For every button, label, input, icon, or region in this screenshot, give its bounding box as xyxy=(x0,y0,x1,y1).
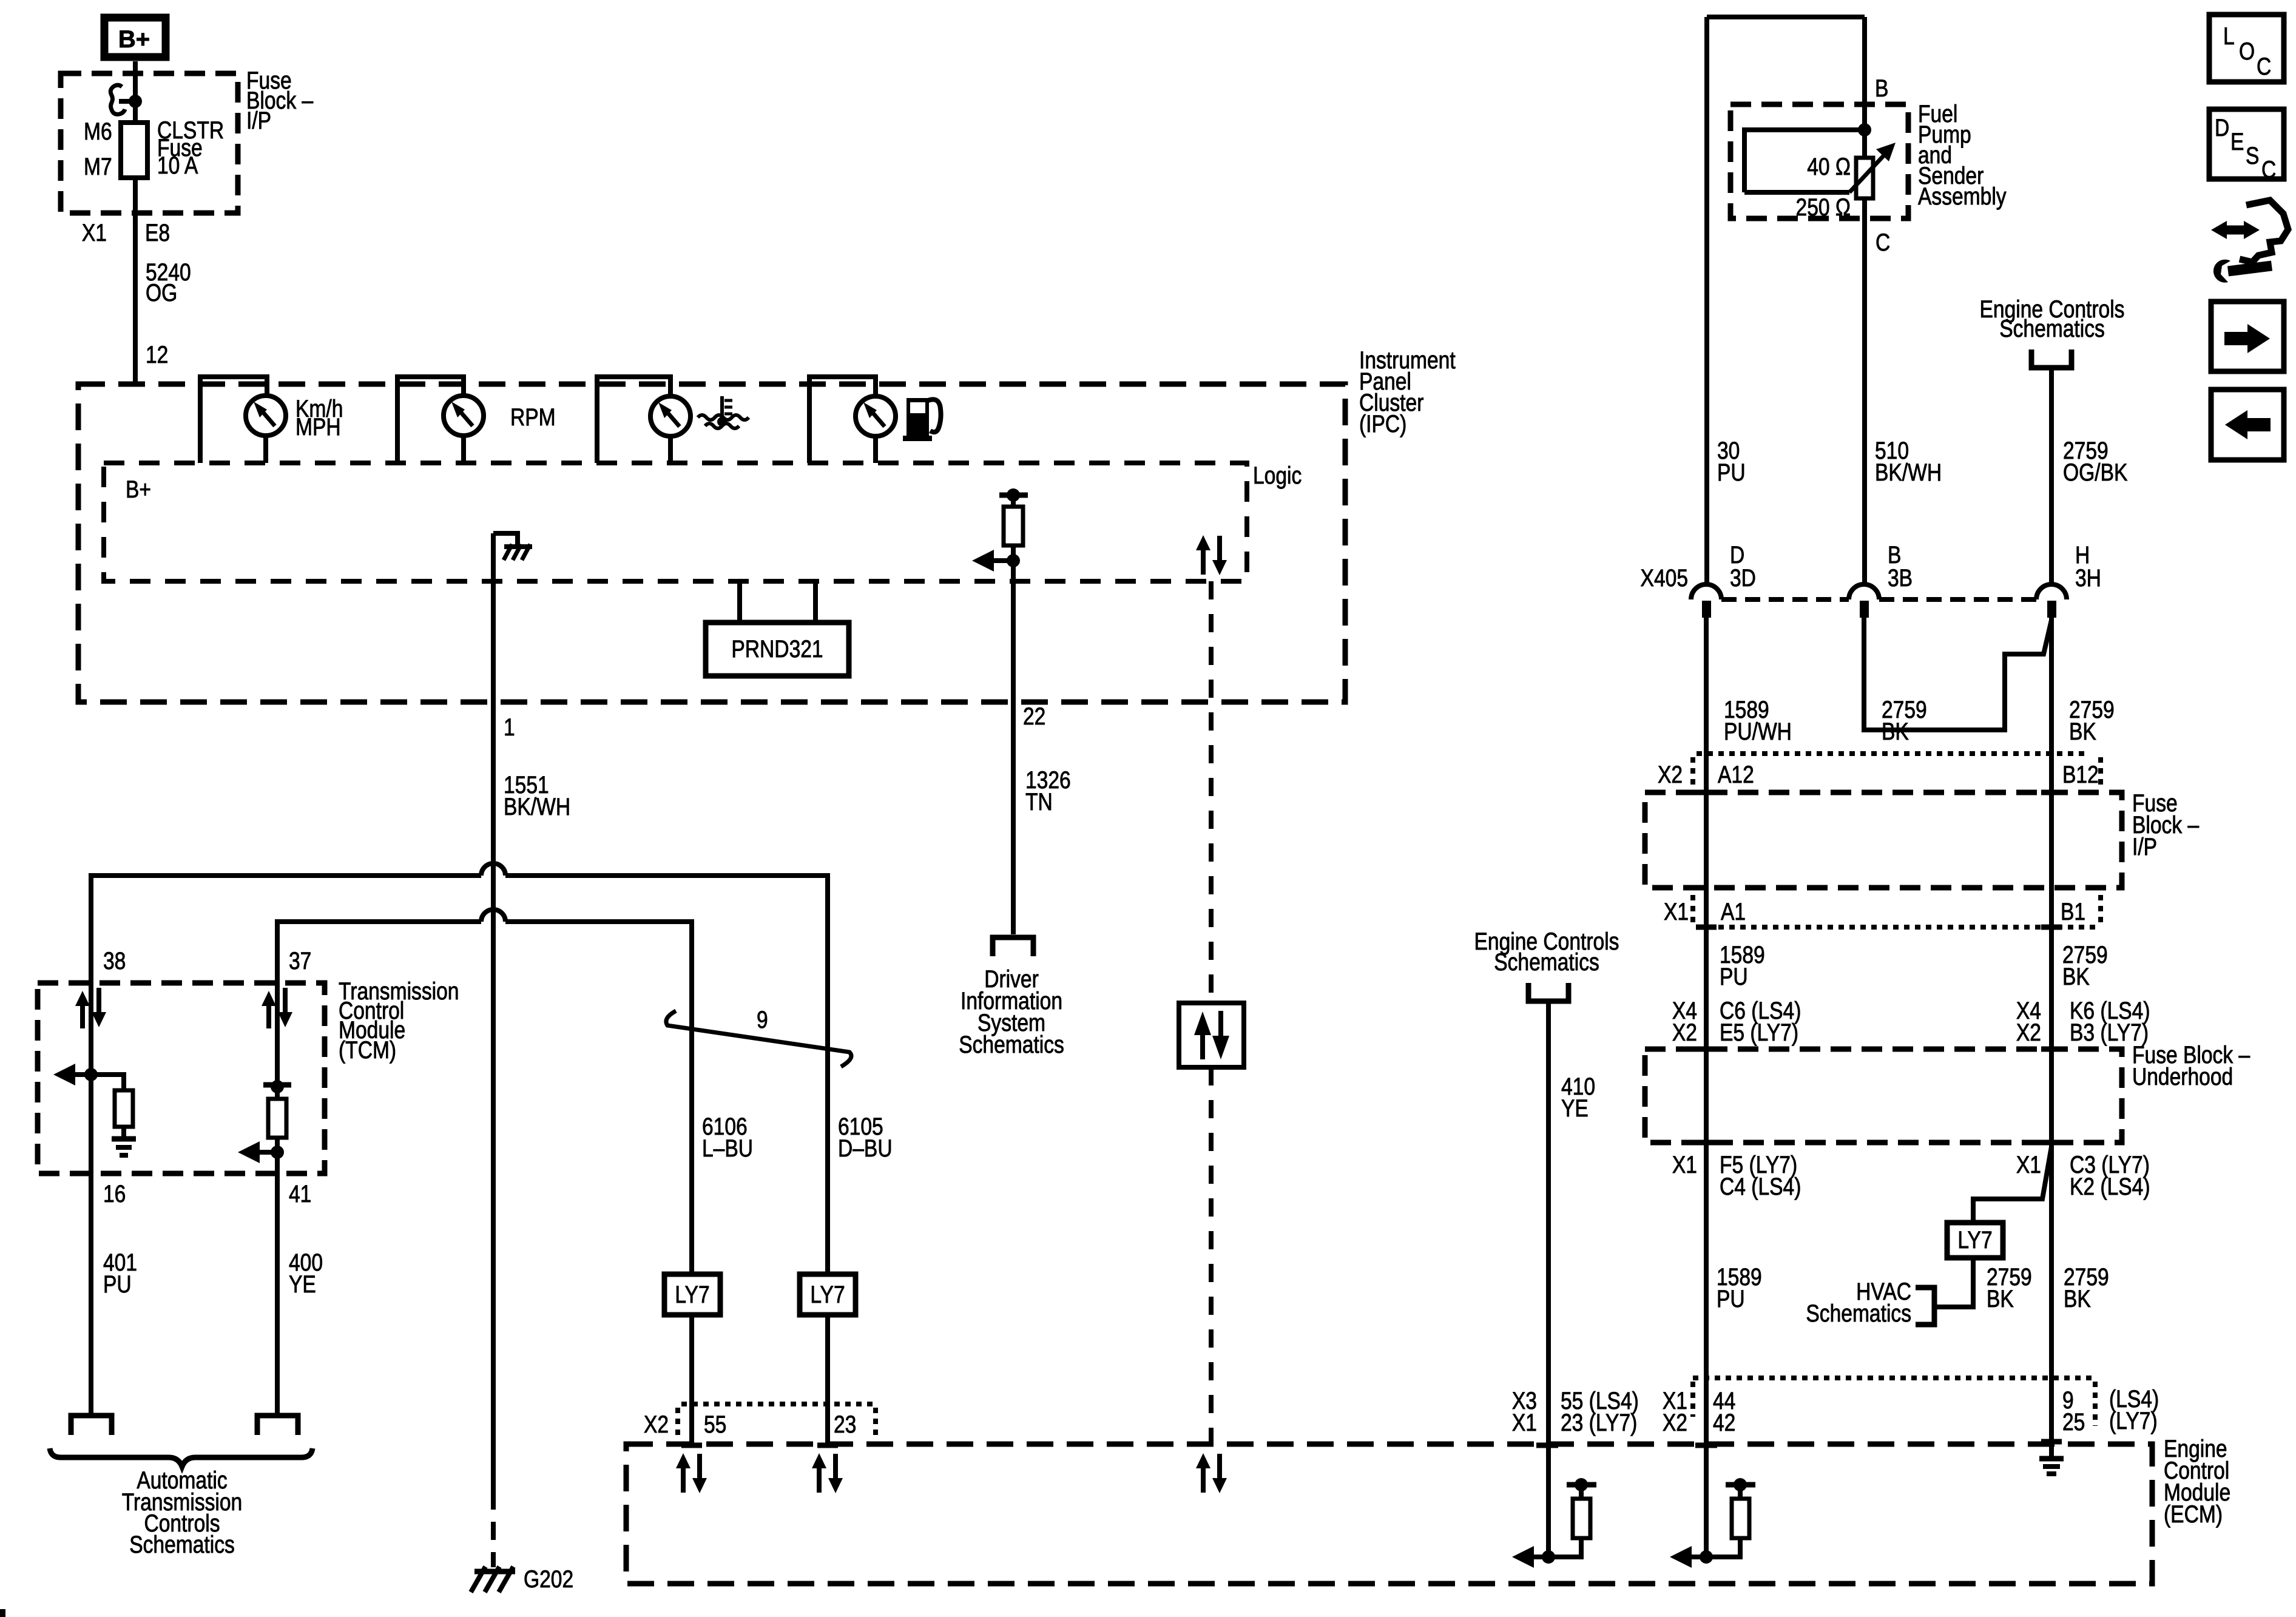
wire 5240 OG xyxy=(146,258,191,368)
svg-text:Schematics: Schematics xyxy=(129,1531,235,1558)
serial data arrows ECM data link xyxy=(1196,1453,1227,1493)
fuel tank outline xyxy=(1707,17,1865,584)
wire 401 PU xyxy=(91,1173,137,1414)
svg-text:PU: PU xyxy=(1720,963,1748,990)
svg-text:BK: BK xyxy=(1987,1285,2014,1312)
svg-text:E8: E8 xyxy=(145,219,170,246)
ground symbol logic internal xyxy=(493,533,532,560)
junction dot pump feed xyxy=(1858,123,1871,137)
svg-text:B: B xyxy=(1875,75,1888,101)
connector X405 terminal B 3B xyxy=(1849,541,1913,618)
connector X4 X2 pins C6 E5 xyxy=(1672,997,1801,1045)
off-page connector engine controls top xyxy=(1980,295,2125,584)
svg-text:K2 (LS4): K2 (LS4) xyxy=(2070,1173,2150,1200)
wire 510 BK/WH label xyxy=(1875,437,1942,485)
fuel pump and sender dashed box xyxy=(1730,100,2007,218)
svg-text:40 Ω: 40 Ω xyxy=(1807,153,1851,180)
rheostat fuel sender xyxy=(1849,143,1896,198)
svg-text:LY7: LY7 xyxy=(675,1281,709,1308)
svg-text:LY7: LY7 xyxy=(810,1281,845,1308)
svg-text:9: 9 xyxy=(757,1006,768,1033)
svg-text:O: O xyxy=(2239,38,2255,64)
fuel pump motor xyxy=(1744,130,1865,192)
wire 2759 BK splice jog xyxy=(1864,618,2051,745)
fuse block I/P right dashed box xyxy=(1645,789,2200,888)
connector pins 9 25 labels xyxy=(1693,1378,2159,1436)
svg-text:10 A: 10 A xyxy=(157,152,198,178)
terminal ECM pin 44 xyxy=(1695,1443,1717,1448)
icon box LOC xyxy=(2209,15,2284,82)
instrument panel cluster box xyxy=(78,346,1456,702)
svg-text:X1: X1 xyxy=(1672,1151,1697,1178)
ECM terminal pin 23 xyxy=(817,1443,838,1448)
gauge tachometer RPM xyxy=(397,377,556,463)
svg-text:3B: 3B xyxy=(1888,564,1913,591)
svg-text:X1: X1 xyxy=(2016,1151,2041,1178)
svg-text:41: 41 xyxy=(289,1180,311,1207)
wire through fuse block A12-A1 xyxy=(1704,792,1709,927)
wire through underhood right xyxy=(2049,1049,2054,1143)
serial data arrows TCM pin37 xyxy=(262,988,292,1028)
svg-text:X1: X1 xyxy=(1512,1409,1537,1436)
wire TCM pin37 to pin41 xyxy=(275,983,280,1173)
resistor TCM sensor reference xyxy=(238,1080,291,1163)
svg-text:M6: M6 xyxy=(84,118,112,144)
svg-text:YE: YE xyxy=(289,1271,316,1297)
svg-text:Schematics: Schematics xyxy=(1999,315,2105,342)
svg-text:C: C xyxy=(2257,53,2271,79)
svg-text:I/P: I/P xyxy=(2132,833,2157,860)
off-page connector driver information xyxy=(959,937,1064,1058)
connector X1 X2 pins 44 42 labels xyxy=(1663,1387,1735,1436)
svg-text:B12: B12 xyxy=(2062,761,2099,788)
wire through underhood left xyxy=(1704,1049,1709,1143)
svg-text:PU: PU xyxy=(1717,459,1746,485)
fuse block I/P dashed box xyxy=(61,67,314,213)
svg-text:C: C xyxy=(2261,156,2276,183)
twisted pair symbol 9 xyxy=(666,1006,851,1067)
svg-text:PU: PU xyxy=(103,1271,132,1297)
svg-text:42: 42 xyxy=(1713,1409,1735,1436)
fuse block underhood dashed box xyxy=(1645,1041,2250,1143)
icon box arrow left xyxy=(2211,390,2284,460)
wire B+ feed xyxy=(133,61,138,384)
wire 400 YE xyxy=(277,1173,323,1414)
svg-text:BK: BK xyxy=(2062,963,2090,990)
icon diagnostic wrench xyxy=(2211,200,2288,283)
svg-text:X2: X2 xyxy=(1658,761,1683,788)
connector X405 terminal D 3D xyxy=(1691,541,1756,792)
terminal C6 xyxy=(1696,1047,1717,1052)
wire horizontal pin37 to 6106 with hop xyxy=(277,910,692,1274)
svg-text:OG: OG xyxy=(146,279,177,306)
engine code box LY7 left xyxy=(664,1274,720,1444)
terminal C3 xyxy=(2041,1140,2062,1146)
off-page connector 401 xyxy=(71,1416,112,1435)
svg-text:1: 1 xyxy=(504,714,515,740)
svg-text:X1: X1 xyxy=(1664,898,1689,925)
svg-text:12: 12 xyxy=(146,341,168,368)
logic box xyxy=(104,462,1302,581)
resistor TCM pull to ground xyxy=(53,1064,136,1155)
connector X3 X1 pins 55 23 labels xyxy=(1512,1387,1639,1436)
svg-text:L–BU: L–BU xyxy=(702,1135,753,1161)
off-page connector 400 xyxy=(257,1416,298,1435)
terminal A1 xyxy=(1696,925,1717,930)
off-page connector engine controls mid xyxy=(1474,928,1619,1001)
serial data box symbol xyxy=(1179,1003,1244,1067)
connector X2 pins A12 B12 xyxy=(1658,754,2101,789)
svg-text:OG/BK: OG/BK xyxy=(2063,459,2128,485)
terminal F5 xyxy=(1696,1140,1717,1146)
wire through fuse block B12-B1 xyxy=(2049,792,2054,927)
connector X1 pins F5 C4 xyxy=(1672,1151,1801,1200)
svg-text:BK: BK xyxy=(2069,718,2096,744)
svg-text:I/P: I/P xyxy=(246,107,271,133)
wire 6106 L-BU label xyxy=(702,1113,753,1161)
fuse CLSTR 10 A xyxy=(84,116,224,180)
connector X1 pin E8 xyxy=(82,219,170,246)
svg-text:Schematics: Schematics xyxy=(1806,1300,1911,1326)
svg-text:Logic: Logic xyxy=(1253,462,1302,488)
terminal B1 xyxy=(2041,925,2062,930)
connector X1 pins A1 B1 xyxy=(1664,895,2101,927)
svg-text:Underhood: Underhood xyxy=(2132,1063,2233,1090)
svg-text:BK: BK xyxy=(1882,718,1909,744)
brace automatic transmission xyxy=(50,1448,312,1558)
svg-text:X2: X2 xyxy=(2016,1019,2041,1045)
svg-text:A1: A1 xyxy=(1721,898,1746,925)
svg-text:BK/WH: BK/WH xyxy=(1875,459,1942,485)
svg-text:B1: B1 xyxy=(2061,898,2085,925)
svg-text:X405: X405 xyxy=(1641,564,1688,591)
wire 1326 TN pin 22 xyxy=(1013,561,1071,934)
serial data arrows logic xyxy=(1196,535,1227,575)
serial data arrows ECM pin23 xyxy=(812,1453,843,1493)
svg-text:A12: A12 xyxy=(1718,761,1754,788)
terminal K6 xyxy=(2041,1047,2062,1052)
svg-text:TN: TN xyxy=(1025,788,1053,815)
svg-text:3H: 3H xyxy=(2075,564,2101,591)
gauge speedometer Km/h MPH xyxy=(200,377,343,463)
off-page connector HVAC schematics xyxy=(1806,1278,1934,1326)
svg-text:Assembly: Assembly xyxy=(1918,183,2007,209)
terminal A12 xyxy=(1696,790,1717,795)
serial data arrows TCM pin38 xyxy=(75,988,106,1028)
wire 1589 PU to ECM xyxy=(1706,1143,1762,1444)
wire 2759 BK to ECM xyxy=(2051,1143,2109,1444)
icon box arrow right xyxy=(2211,302,2284,371)
svg-text:55: 55 xyxy=(704,1411,726,1437)
serial data dashed wire xyxy=(1209,581,1214,1444)
svg-text:YE: YE xyxy=(1561,1095,1589,1121)
svg-text:23: 23 xyxy=(834,1411,856,1437)
corner mark xyxy=(0,1609,5,1617)
svg-text:X1: X1 xyxy=(82,219,107,246)
junction dot xyxy=(129,95,142,108)
connector X1 pins C3 K2 xyxy=(2016,1151,2150,1200)
svg-text:22: 22 xyxy=(1023,703,1045,729)
engine code box LY7 splice xyxy=(1947,1223,2003,1258)
svg-text:23 (LY7): 23 (LY7) xyxy=(1561,1409,1637,1436)
svg-text:S: S xyxy=(2246,142,2259,169)
svg-text:PU: PU xyxy=(1717,1285,1745,1312)
wire 2759 BK label mid xyxy=(2051,927,2108,1049)
transmission control module box xyxy=(38,977,459,1173)
svg-text:L: L xyxy=(2223,22,2235,49)
wire 6105 D-BU label xyxy=(838,1113,893,1161)
icon box DESC xyxy=(2209,109,2284,183)
svg-text:MPH: MPH xyxy=(295,413,341,440)
svg-text:(ECM): (ECM) xyxy=(2164,1501,2223,1527)
wire horizontal pin38 to 6105 with hop xyxy=(91,863,828,1274)
svg-text:X2: X2 xyxy=(1663,1409,1687,1436)
wire 2759 BK to HVAC xyxy=(1934,1258,2032,1312)
wire 1589 PU/WH label xyxy=(1724,696,1792,744)
svg-text:16: 16 xyxy=(103,1180,126,1207)
connector X405 dashed line xyxy=(1721,597,2036,602)
wire 410 YE xyxy=(1548,1001,1595,1444)
ground internal ECM xyxy=(2039,1444,2064,1474)
resistor ECM pullup 410 xyxy=(1512,1444,1596,1568)
svg-text:E: E xyxy=(2230,128,2244,155)
svg-text:25: 25 xyxy=(2062,1408,2085,1435)
terminal B12 xyxy=(2041,790,2062,795)
serial data arrows ECM pin55 xyxy=(676,1453,707,1493)
connector X405 terminal H 3H xyxy=(2036,541,2101,618)
svg-text:37: 37 xyxy=(289,947,311,974)
svg-text:C: C xyxy=(1876,229,1890,255)
resistor fuel gauge sender input xyxy=(972,488,1028,572)
svg-text:Schematics: Schematics xyxy=(1494,948,1599,975)
engine code box LY7 right xyxy=(800,1274,856,1444)
svg-text:G202: G202 xyxy=(524,1565,573,1592)
svg-text:M7: M7 xyxy=(84,153,112,180)
svg-text:LY7: LY7 xyxy=(1957,1226,1992,1253)
svg-text:PU/WH: PU/WH xyxy=(1724,718,1792,744)
ground G202 xyxy=(471,1565,573,1592)
wire 2759 OG/BK label xyxy=(2063,437,2128,485)
branch wire to LY7 ground splice xyxy=(1973,1147,2051,1223)
ECM terminal pin 55 xyxy=(681,1443,702,1448)
svg-text:BK/WH: BK/WH xyxy=(504,793,570,820)
gauge fuel level xyxy=(809,377,941,463)
wire 1589 PU label xyxy=(1706,927,1765,1049)
svg-text:(LY7): (LY7) xyxy=(2109,1407,2158,1434)
svg-text:250 Ω: 250 Ω xyxy=(1796,194,1851,220)
svg-text:D–BU: D–BU xyxy=(838,1135,893,1161)
svg-text:X2: X2 xyxy=(1672,1019,1697,1045)
svg-text:C4 (LS4): C4 (LS4) xyxy=(1720,1173,1801,1200)
svg-text:B+: B+ xyxy=(118,26,150,53)
svg-text:38: 38 xyxy=(103,947,126,974)
svg-text:D: D xyxy=(2215,114,2229,141)
svg-text:3D: 3D xyxy=(1730,564,1756,591)
svg-text:(TCM): (TCM) xyxy=(339,1036,396,1063)
power symbol B+ xyxy=(104,18,166,57)
svg-text:(IPC): (IPC) xyxy=(1359,410,1406,437)
engine control module box xyxy=(626,1435,2230,1584)
svg-text:X2: X2 xyxy=(644,1411,669,1437)
wire 30 PU label xyxy=(1717,437,1746,485)
fuse clip xyxy=(110,85,135,114)
resistor ECM pullup 1589 xyxy=(1670,1444,1755,1568)
svg-text:PRND321: PRND321 xyxy=(731,635,823,662)
svg-text:BK: BK xyxy=(2064,1285,2091,1312)
gauge coolant temperature xyxy=(597,377,749,463)
svg-text:B+: B+ xyxy=(126,476,151,502)
svg-text:Schematics: Schematics xyxy=(959,1031,1064,1058)
svg-text:RPM: RPM xyxy=(510,403,556,430)
svg-text:E5 (LY7): E5 (LY7) xyxy=(1720,1019,1798,1045)
wire 1551 BK/WH to ground xyxy=(493,533,570,1567)
wire TCM pin38 to pin16 xyxy=(89,983,93,1173)
connector X4 X2 pins K6 B3 xyxy=(2016,997,2150,1045)
PRND321 display xyxy=(706,581,849,676)
wire 2759 BK right label xyxy=(2051,618,2115,792)
terminal ECM pin 55 mid xyxy=(1536,1443,1558,1448)
connector X2 pins 55 23 xyxy=(644,1404,876,1440)
terminal ECM pin 9 xyxy=(2041,1439,2062,1445)
